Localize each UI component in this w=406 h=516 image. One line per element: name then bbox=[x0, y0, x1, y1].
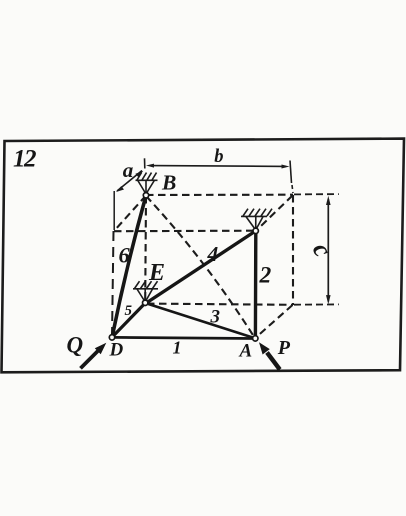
svg-text:P: P bbox=[277, 337, 291, 359]
svg-text:b: b bbox=[214, 147, 223, 167]
svg-text:Q: Q bbox=[67, 332, 84, 357]
svg-text:A: A bbox=[239, 341, 253, 362]
svg-text:a: a bbox=[123, 158, 134, 182]
svg-text:4: 4 bbox=[207, 242, 219, 266]
svg-text:6: 6 bbox=[119, 243, 131, 268]
svg-text:1: 1 bbox=[173, 338, 182, 358]
svg-text:12: 12 bbox=[13, 146, 36, 173]
svg-text:D: D bbox=[109, 340, 124, 361]
svg-text:E: E bbox=[148, 260, 165, 286]
svg-text:B: B bbox=[161, 171, 176, 195]
svg-text:3: 3 bbox=[210, 306, 221, 327]
svg-text:5: 5 bbox=[125, 303, 133, 319]
svg-text:2: 2 bbox=[259, 263, 272, 289]
